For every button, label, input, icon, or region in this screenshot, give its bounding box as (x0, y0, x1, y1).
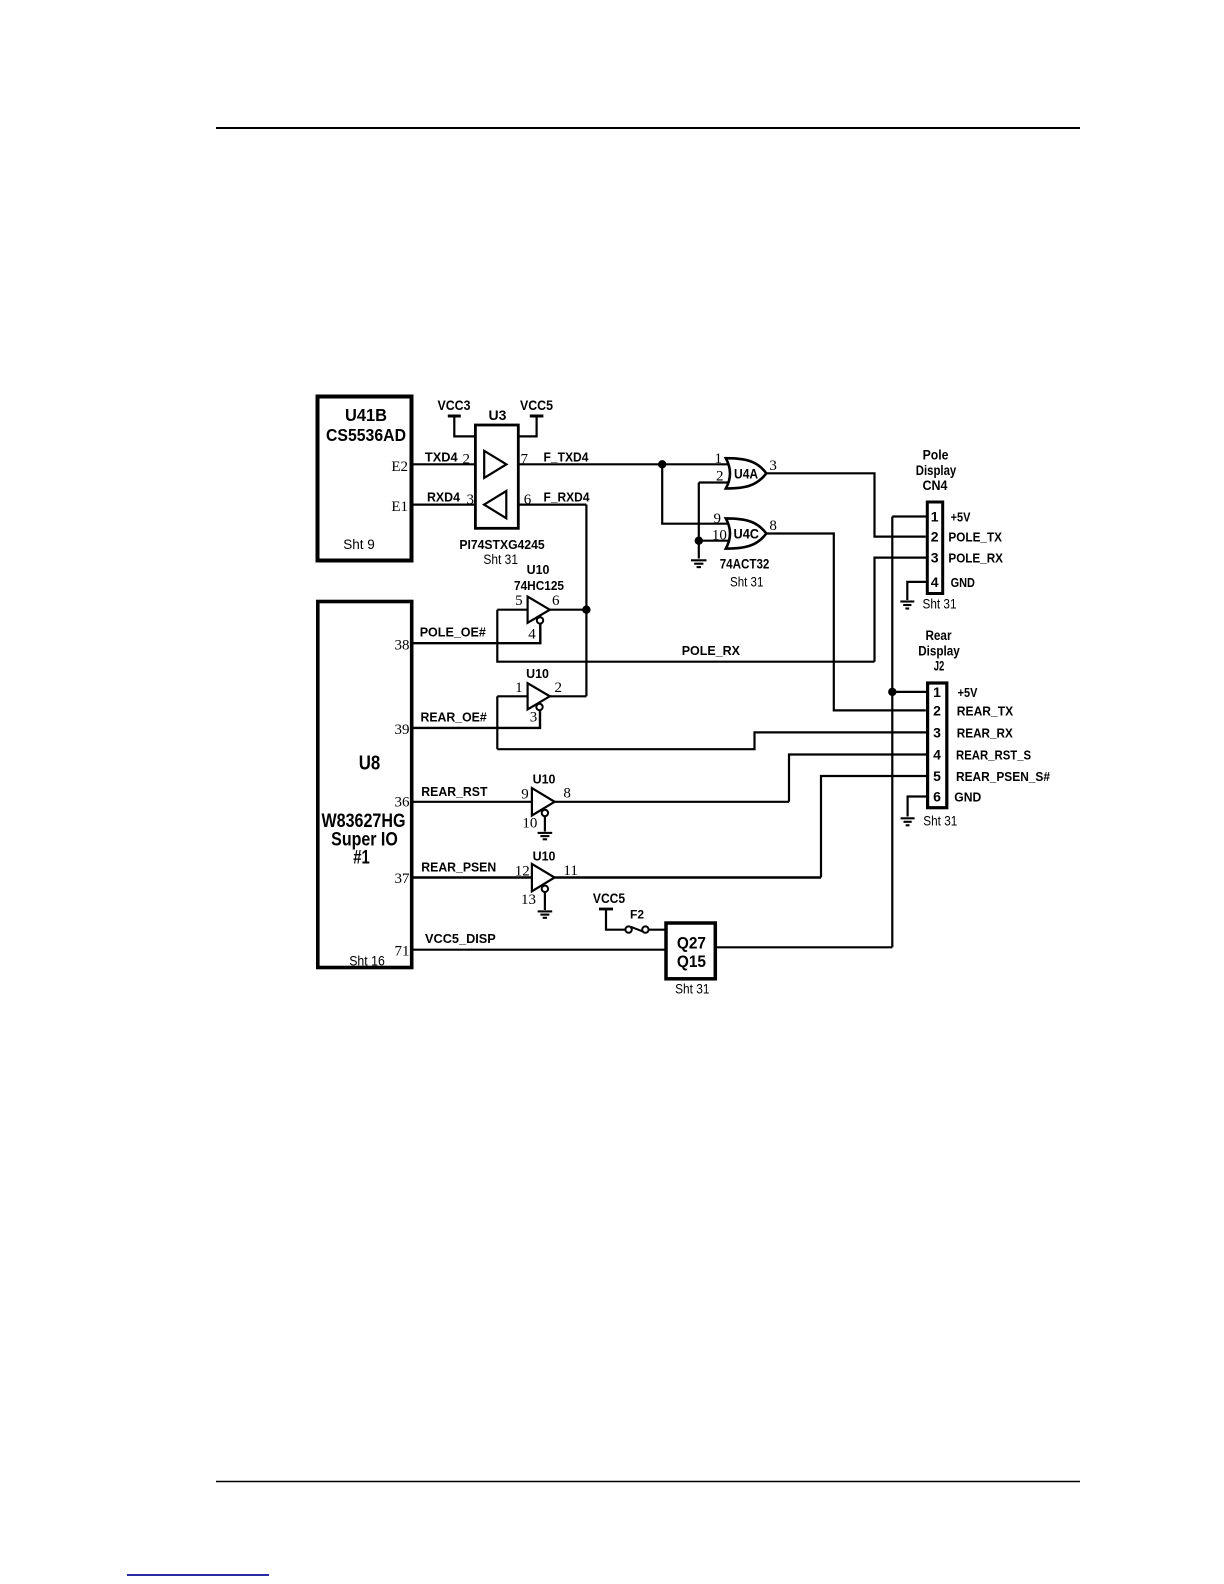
svg-text:8: 8 (563, 786, 571, 802)
svg-text:37: 37 (395, 871, 411, 887)
svg-text:#1: #1 (353, 847, 370, 869)
svg-text:VCC3: VCC3 (438, 398, 471, 413)
svg-text:REAR_PSEN: REAR_PSEN (421, 860, 496, 875)
svg-text:6: 6 (933, 789, 941, 805)
svg-text:1: 1 (933, 684, 941, 700)
wire Q27 output to +5V trunk (716, 946, 893, 948)
svg-text:POLE_TX: POLE_TX (948, 530, 1002, 545)
ground at buffer U10C (538, 833, 553, 839)
ground at buffer U10D (538, 911, 553, 917)
svg-text:F_TXD4: F_TXD4 (544, 449, 590, 464)
footer blue line (127, 1574, 269, 1576)
bottom rule (216, 1481, 1080, 1483)
junction buffer out / F_RXD4 node (582, 606, 590, 614)
svg-text:REAR_OE#: REAR_OE# (421, 710, 488, 725)
svg-text:PI74STXG4245: PI74STXG4245 (459, 537, 544, 552)
junction pin10/ground node (695, 537, 703, 545)
wire TXD4 / net F_TXD4 (413, 463, 731, 465)
svg-text:REAR_PSEN_S#: REAR_PSEN_S# (956, 769, 1051, 784)
svg-text:4: 4 (933, 747, 941, 763)
svg-text:REAR_RST: REAR_RST (421, 784, 487, 799)
svg-text:Display: Display (918, 644, 960, 659)
wire REAR_OE# pin39 to buffer enable (413, 710, 540, 728)
buffer U10D (pins 12,11,13) REAR_PSEN (413, 849, 821, 911)
svg-text:J2: J2 (934, 659, 945, 674)
svg-text:2: 2 (931, 529, 939, 545)
svg-text:F2: F2 (630, 908, 644, 922)
svg-text:U3: U3 (489, 407, 507, 423)
svg-text:CN4: CN4 (923, 478, 948, 493)
svg-text:5: 5 (515, 593, 523, 609)
wire CN4 pin1 +5V (892, 515, 927, 517)
or-gate U4C (712, 511, 777, 549)
svg-text:39: 39 (395, 722, 410, 738)
ground at J2 (901, 818, 915, 825)
buffer U10C (pins 9,8,10) REAR_RST (413, 772, 789, 832)
svg-text:Pole: Pole (923, 448, 949, 463)
svg-text:2: 2 (716, 469, 724, 485)
IC U41B CS5536AD (318, 397, 412, 561)
power VCC5 at fuse (593, 891, 626, 930)
svg-text:74HC125: 74HC125 (514, 578, 564, 593)
svg-text:E2: E2 (391, 459, 408, 475)
svg-text:REAR_RX: REAR_RX (957, 725, 1013, 740)
svg-text:U41B: U41B (345, 405, 387, 425)
svg-text:4: 4 (528, 627, 536, 643)
svg-text:U10: U10 (526, 666, 549, 681)
U3 buffer triangle RX (484, 491, 506, 518)
svg-text:3: 3 (933, 724, 941, 740)
or-gate U4A (715, 451, 777, 489)
svg-text:1: 1 (715, 451, 723, 467)
svg-text:RXD4: RXD4 (427, 490, 461, 505)
svg-text:6: 6 (552, 593, 560, 609)
svg-text:9: 9 (714, 511, 722, 527)
svg-text:2: 2 (933, 702, 941, 718)
svg-text:VCC5: VCC5 (520, 398, 553, 413)
svg-text:10: 10 (522, 816, 537, 832)
svg-text:Sht 9: Sht 9 (343, 537, 375, 552)
svg-text:U10: U10 (533, 772, 556, 787)
svg-text:12: 12 (515, 864, 530, 880)
wire POLE_OE# pin38 to buffer enable (413, 624, 540, 644)
fuse F2 (625, 908, 666, 933)
svg-text:U4A: U4A (734, 465, 758, 481)
svg-text:F_RXD4: F_RXD4 (544, 490, 591, 505)
svg-text:U10: U10 (533, 849, 556, 864)
level shifter U3 (475, 407, 518, 528)
connector CN4 Pole Display (916, 448, 1004, 594)
svg-text:U4C: U4C (734, 525, 760, 541)
svg-text:Q27: Q27 (677, 934, 706, 953)
svg-text:+5V: +5V (951, 509, 971, 524)
svg-text:VCC5_DISP: VCC5_DISP (425, 931, 496, 946)
svg-text:2: 2 (463, 452, 471, 468)
svg-text:3: 3 (769, 458, 777, 474)
svg-text:71: 71 (395, 944, 410, 960)
top rule (216, 127, 1080, 129)
svg-text:3: 3 (931, 550, 939, 566)
svg-text:6: 6 (524, 492, 532, 508)
svg-text:13: 13 (521, 892, 536, 908)
connector J2 Rear Display (918, 628, 1050, 808)
svg-text:3: 3 (467, 492, 475, 508)
svg-text:38: 38 (395, 638, 410, 654)
svg-text:Sht 16: Sht 16 (349, 954, 385, 969)
svg-text:36: 36 (395, 795, 411, 811)
wire VCC5_DISP pin71 to Q27 (413, 949, 666, 951)
wire +5V vertical trunk (891, 517, 893, 948)
svg-text:9: 9 (521, 787, 529, 803)
svg-text:GND: GND (954, 790, 981, 805)
svg-text:7: 7 (521, 452, 529, 468)
svg-text:Rear: Rear (925, 628, 952, 643)
svg-text:POLE_RX: POLE_RX (682, 643, 741, 658)
wire J2 pin3 REAR_RX (497, 732, 927, 749)
svg-text:Sht 31: Sht 31 (730, 575, 763, 590)
svg-text:E1: E1 (391, 499, 408, 515)
wire ground stub for pins 2,10 (698, 483, 700, 559)
IC U8 W83627HG Super IO (318, 602, 412, 969)
wire J2 pin6 GND stub (908, 797, 928, 817)
svg-text:POLE_RX: POLE_RX (948, 551, 1003, 566)
svg-text:1: 1 (515, 680, 523, 696)
svg-text:U10: U10 (527, 562, 550, 577)
buffer U10A (pins 5,6,4) (497, 562, 586, 643)
svg-text:POLE_OE#: POLE_OE# (420, 624, 487, 639)
wire U4A pin 2 stub (699, 481, 729, 483)
wire RXD4 / net F_RXD4 (413, 504, 586, 506)
wire CN4 pin3 POLE_RX (875, 558, 928, 662)
svg-text:Sht 31: Sht 31 (923, 814, 957, 829)
svg-text:4: 4 (931, 574, 939, 590)
wire U4C pin 10 stub (699, 540, 729, 542)
svg-text:Display: Display (916, 463, 957, 478)
svg-text:VCC5: VCC5 (593, 891, 626, 906)
buffer U10B (pins 1,2,3) (497, 666, 586, 725)
wire J2 pin5 REAR_PSEN_S# (821, 776, 928, 878)
svg-text:10: 10 (712, 528, 727, 544)
svg-text:Q15: Q15 (677, 952, 706, 971)
power VCC3 (438, 398, 476, 436)
wire CN4 pin4 GND stub (907, 582, 927, 600)
svg-text:5: 5 (933, 768, 941, 784)
svg-text:Sht 31: Sht 31 (483, 552, 518, 567)
U3 pin and net labels (425, 449, 590, 567)
svg-text:REAR_TX: REAR_TX (957, 703, 1014, 718)
svg-text:1: 1 (931, 509, 939, 525)
svg-text:Sht 31: Sht 31 (923, 597, 957, 612)
svg-text:8: 8 (769, 518, 777, 534)
svg-text:GND: GND (951, 575, 975, 590)
svg-text:11: 11 (563, 863, 577, 879)
U3 buffer triangle TX (484, 451, 506, 478)
wire J2 pin1 +5V (892, 691, 927, 693)
svg-text:Sht 31: Sht 31 (675, 982, 709, 997)
wire J2 pin4 REAR_RST_S (789, 755, 928, 802)
transistor block Q27/Q15 (666, 923, 715, 997)
wire POLE_RX from buffer input (497, 610, 874, 662)
svg-text:U8: U8 (359, 753, 381, 775)
wire F_RXD4 vertical (585, 505, 587, 697)
ground under OR gates (691, 560, 707, 567)
ground at CN4 (900, 602, 914, 609)
wire U4C out to J2 pin2 REAR_TX (766, 534, 926, 711)
wire U4A out to CN4 pin2 POLE_TX (766, 473, 926, 536)
svg-text:+5V: +5V (958, 685, 978, 700)
svg-text:REAR_RST_S: REAR_RST_S (956, 748, 1031, 763)
svg-text:2: 2 (555, 680, 563, 696)
svg-text:CS5536AD: CS5536AD (326, 425, 406, 445)
svg-text:TXD4: TXD4 (425, 449, 458, 464)
wire F_TXD4 to U4C pin 9 (662, 464, 730, 523)
wire buffer U10B input from REAR_RX return (496, 696, 498, 749)
svg-text:3: 3 (530, 709, 538, 725)
svg-text:74ACT32: 74ACT32 (720, 555, 770, 571)
junction +5V node at J2 pin1 (888, 688, 896, 696)
junction F_TXD4 node (658, 460, 666, 468)
power VCC5 (518, 398, 553, 436)
